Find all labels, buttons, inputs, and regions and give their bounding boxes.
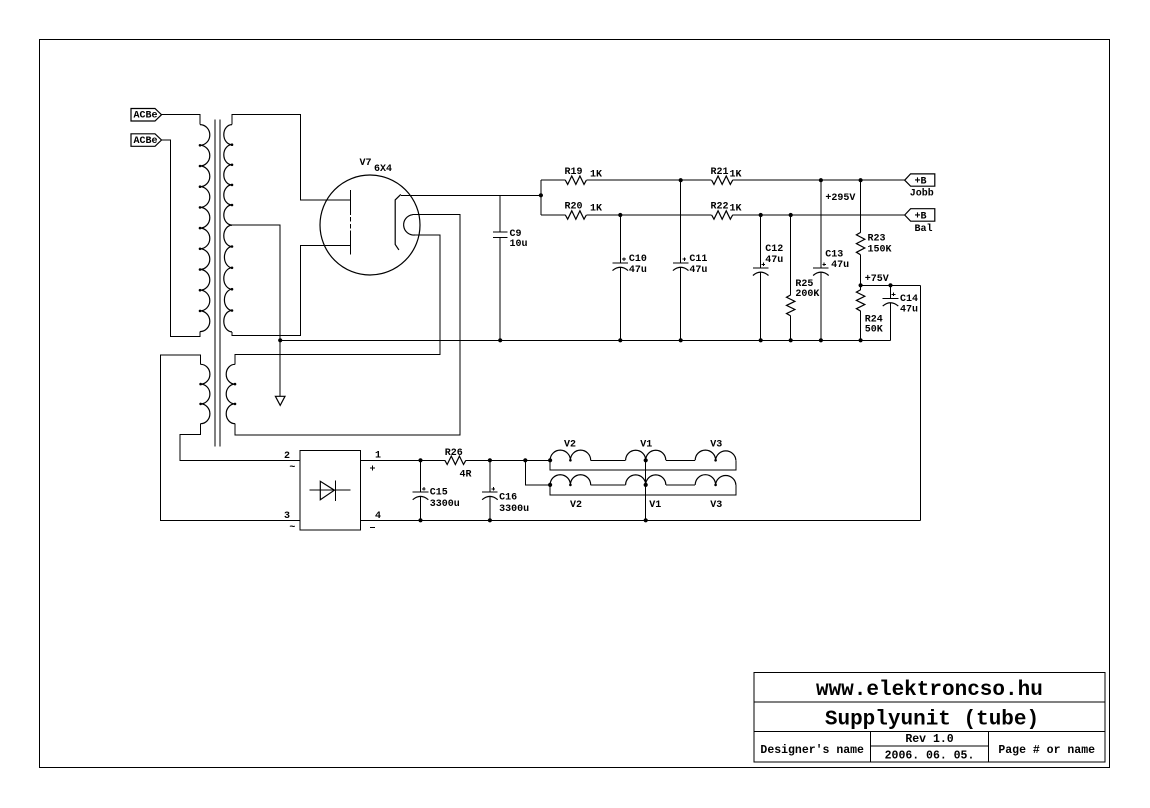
svg-text:~: ~	[289, 522, 295, 533]
svg-text:+B: +B	[915, 211, 927, 222]
svg-text:Jobb: Jobb	[910, 188, 934, 200]
rail 0V	[280, 339, 890, 341]
transformer T1 primary winding	[200, 125, 210, 332]
wire secondary top to tube upper plate	[232, 115, 351, 200]
ground	[275, 396, 285, 405]
junction C14 top	[888, 283, 892, 287]
wire row 2 return loop	[550, 485, 736, 495]
junction 0V rail x=790.7	[789, 338, 793, 342]
svg-text:47u: 47u	[765, 255, 783, 266]
svg-text:V2: V2	[564, 439, 576, 450]
net flag +B Jobb	[905, 174, 935, 188]
polarity + (C15)	[422, 487, 426, 491]
bridge diode symbol	[310, 480, 351, 501]
junction rail (860.6,180.2)	[859, 178, 863, 182]
wire row 1 V1-V3	[666, 459, 695, 461]
resistor R24	[860, 285, 862, 340]
svg-text:C13: C13	[825, 250, 843, 261]
junction rail (680.7,180.2)	[679, 178, 683, 182]
junction heater branch	[523, 458, 527, 462]
svg-text:~: ~	[289, 463, 295, 474]
heater winding V2 row 2	[550, 475, 591, 485]
svg-text:47u: 47u	[831, 260, 849, 271]
wire +75V to heater minus rail	[920, 285, 922, 520]
capacitor C15	[413, 460, 429, 520]
heater winding V2 row 1	[550, 450, 591, 460]
junction C15 bottom	[418, 518, 422, 522]
svg-text:1K: 1K	[730, 204, 742, 215]
heater winding V1 row 2	[626, 475, 666, 485]
junction row 1 start	[548, 458, 552, 462]
resistor R23	[860, 180, 862, 285]
junction center tap / 0V rail	[278, 338, 282, 342]
bridge rectifier B1	[300, 450, 360, 530]
capacitor C13	[813, 180, 829, 340]
svg-text:C15: C15	[430, 487, 448, 498]
junction center tap row2	[644, 483, 648, 487]
wire row 2 V2-V1	[591, 484, 626, 486]
capacitor C10	[613, 215, 629, 340]
svg-text:3300u: 3300u	[499, 504, 529, 515]
svg-text:10u: 10u	[510, 239, 528, 250]
junction center tap minus rail	[644, 518, 648, 522]
pin 1 plus mark	[370, 465, 375, 470]
wire row 1 V2-V1	[591, 459, 626, 461]
junction 0V rail x=680.7	[679, 338, 683, 342]
junction rail (760.7,215)	[759, 213, 763, 217]
svg-text:R21: R21	[711, 167, 729, 178]
svg-text:1K: 1K	[590, 204, 602, 215]
svg-text:R19: R19	[565, 167, 583, 178]
wire ACBe lower to primary bottom	[162, 140, 201, 336]
wire branch to heater row 2	[525, 460, 550, 485]
svg-text:Rev 1.0: Rev 1.0	[905, 733, 953, 746]
wire heater pin bottom	[235, 235, 440, 364]
svg-text:47u: 47u	[629, 265, 647, 276]
svg-text:Supplyunit (tube): Supplyunit (tube)	[825, 709, 1039, 732]
net flag ACBe (upper)	[131, 109, 162, 122]
svg-text:ACBe: ACBe	[134, 136, 158, 147]
svg-text:R20: R20	[565, 202, 583, 213]
junction 0V rail x=500.2	[498, 338, 502, 342]
junction row 2 start	[548, 483, 552, 487]
polarity + (C10)	[622, 257, 626, 261]
wire cathode output	[401, 194, 541, 196]
junction 0V rail x=860.6	[859, 338, 863, 342]
tube plate bar (two anodes, dashed center)	[350, 190, 352, 255]
transformer T1 heater primary winding	[201, 364, 210, 423]
junction C15 top	[418, 458, 422, 462]
heater winding V1 row 1	[626, 450, 666, 460]
tube heater filament arc	[404, 215, 415, 235]
resistor R20	[565, 211, 586, 219]
polarity + (C16)	[492, 487, 496, 491]
svg-text:Page # or name: Page # or name	[998, 744, 1095, 757]
junction center tap row1	[644, 458, 648, 462]
resistor R25	[760, 0, 762, 1]
svg-text:R26: R26	[445, 448, 463, 459]
polarity + (C13)	[822, 263, 826, 267]
svg-text:V3: V3	[710, 500, 722, 511]
rail heater plus	[361, 459, 550, 461]
svg-text:V3: V3	[710, 439, 722, 450]
svg-text:ACBe: ACBe	[134, 111, 158, 122]
capacitor C11	[673, 180, 689, 340]
svg-text:Designer's name: Designer's name	[760, 744, 864, 757]
svg-text:4R: 4R	[460, 470, 472, 481]
svg-text:47u: 47u	[689, 265, 707, 276]
resistor R21	[712, 176, 733, 184]
svg-text:+75V: +75V	[865, 274, 889, 285]
wire heater pin top	[235, 215, 460, 435]
junction rail (820.9,180.2)	[819, 178, 823, 182]
svg-text:2: 2	[284, 451, 290, 462]
svg-text:+B: +B	[915, 177, 927, 188]
svg-text:Bal: Bal	[915, 223, 933, 235]
polarity + (C11)	[683, 257, 687, 261]
wire center tap to 0V rail and ground	[232, 225, 280, 396]
svg-text:150K: 150K	[868, 245, 892, 256]
wire heater primary bottom to bridge pin 2	[180, 424, 300, 461]
net flag ACBe (lower)	[131, 134, 162, 147]
net flag +B Bal	[905, 209, 935, 223]
wire cathode split vertical	[540, 180, 542, 215]
svg-text:2006. 06. 05.: 2006. 06. 05.	[885, 749, 975, 762]
wire ACBe upper to primary top	[162, 115, 201, 125]
svg-text:C10: C10	[629, 254, 647, 265]
resistor R22	[712, 211, 733, 219]
junction rail (620.3,215)	[618, 213, 622, 217]
capacitor C14	[883, 285, 899, 340]
svg-text:C14: C14	[900, 294, 918, 305]
svg-text:V2: V2	[570, 500, 582, 511]
polarity + (C12)	[762, 263, 766, 267]
tube V7 6X4 envelope	[320, 175, 420, 275]
wire row 1 return loop	[550, 460, 736, 470]
junction 0V rail x=820.9	[819, 338, 823, 342]
svg-text:200K: 200K	[795, 289, 819, 300]
svg-text:C16: C16	[499, 493, 517, 504]
wire +75V node	[861, 284, 921, 286]
svg-text:6X4: 6X4	[374, 164, 392, 175]
svg-text:V1: V1	[649, 500, 661, 511]
svg-text:+295V: +295V	[825, 193, 855, 204]
polarity + (C14)	[892, 293, 896, 297]
tube cathode	[395, 194, 401, 250]
svg-text:1K: 1K	[590, 169, 602, 180]
resistor R19	[565, 176, 586, 184]
svg-text:47u: 47u	[900, 305, 918, 316]
transformer core	[215, 120, 220, 447]
svg-text:C12: C12	[765, 244, 783, 255]
capacitor C12	[753, 215, 769, 340]
capacitor C9	[493, 195, 508, 340]
wire row 2 V1-V3	[666, 484, 695, 486]
junction R23/R24 +75V	[859, 283, 863, 287]
transformer T1 secondary upper winding	[224, 125, 232, 226]
junction cathode split	[539, 193, 543, 197]
heater winding V3 row 2	[695, 475, 736, 485]
svg-text:R22: R22	[711, 202, 729, 213]
junction 0V rail x=760.7	[759, 338, 763, 342]
heater winding V3 row 1	[695, 450, 736, 460]
transformer T1 secondary lower winding	[224, 225, 232, 332]
junction C16 bottom	[488, 518, 492, 522]
svg-text:3300u: 3300u	[430, 499, 460, 510]
pin 4 minus mark	[370, 526, 375, 528]
wire heater center tap to minus rail	[645, 460, 647, 520]
transformer T1 heater secondary winding	[226, 364, 235, 423]
svg-text:V1: V1	[640, 439, 652, 450]
title block	[754, 673, 1105, 763]
rail heater minus	[361, 519, 921, 521]
svg-text:50K: 50K	[865, 325, 883, 336]
resistor R26	[445, 456, 466, 464]
wire secondary bottom to tube lower plate	[232, 246, 351, 336]
rail B+ right (Jobb)	[541, 179, 905, 181]
capacitor C16	[482, 460, 498, 520]
svg-text:1K: 1K	[730, 169, 742, 180]
junction 0V rail x=620.3	[618, 338, 622, 342]
junction C16 top	[488, 458, 492, 462]
svg-text:V7: V7	[360, 158, 372, 169]
svg-text:www.elektroncso.hu: www.elektroncso.hu	[816, 679, 1043, 702]
svg-text:C11: C11	[689, 254, 707, 265]
wire heater primary top to bridge pin 3	[161, 355, 301, 520]
rail B+ left (Bal)	[541, 214, 905, 216]
svg-text:3: 3	[284, 511, 290, 522]
svg-text:R23: R23	[868, 234, 886, 245]
junction rail (790.7,215)	[789, 213, 793, 217]
